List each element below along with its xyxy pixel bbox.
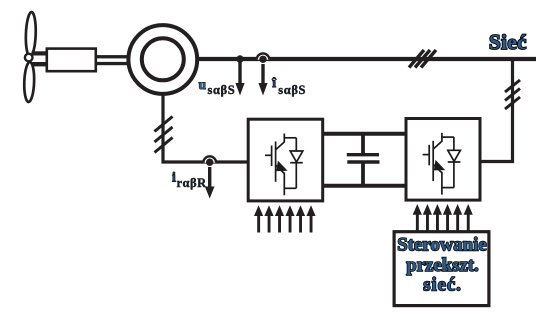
svg-text:Sieć: Sieć xyxy=(489,30,527,54)
dc bus bottom xyxy=(322,184,408,188)
rotor wire xyxy=(163,93,248,162)
turbine blade lower xyxy=(24,62,35,102)
converter box grid-side xyxy=(406,119,480,201)
svg-text:sieć.: sieć. xyxy=(423,275,461,296)
svg-text:Sterowanie: Sterowanie xyxy=(397,235,486,256)
stator wire to grid xyxy=(196,57,536,61)
turbine blade upper xyxy=(25,12,36,57)
high-speed shaft xyxy=(97,55,128,65)
control arrows grid-side converter xyxy=(413,204,473,231)
svg-text:u: u xyxy=(199,77,207,92)
node u stator xyxy=(236,55,243,62)
arrow i_s down xyxy=(258,64,267,96)
dc-link capacitor xyxy=(347,134,380,186)
low-speed shaft xyxy=(32,51,47,66)
converter box rotor-side xyxy=(248,119,323,201)
control arrows rotor-side converter xyxy=(254,205,316,232)
svg-text:i: i xyxy=(172,169,176,184)
label i_saBS xyxy=(271,75,306,97)
svg-text:przekszt.: przekszt. xyxy=(406,255,479,276)
3-phase marks rotor wire xyxy=(155,117,173,153)
IGBT module icon grid-side xyxy=(423,133,461,195)
turbine hub xyxy=(25,54,33,62)
svg-text:sαβS: sαβS xyxy=(208,83,236,97)
arrow i_r down xyxy=(205,167,215,199)
node i stator (measure ring) xyxy=(257,53,270,63)
IGBT module icon rotor-side xyxy=(265,134,303,196)
svg-text:î: î xyxy=(271,75,277,90)
3-phase marks grid drop xyxy=(505,80,520,109)
generator G xyxy=(128,25,197,94)
control box grid converter xyxy=(394,232,489,306)
dc bus top xyxy=(322,132,408,136)
svg-text:sαβS: sαβS xyxy=(278,83,306,97)
label u_saBS xyxy=(199,77,236,97)
wire grid drop xyxy=(482,59,513,162)
arrow u_s down xyxy=(235,59,244,96)
svg-text:rαβR: rαβR xyxy=(177,176,208,190)
label i_raBR xyxy=(172,169,207,190)
label Sterowanie przekszt. siec. xyxy=(397,235,486,296)
node i rotor (measure ring) xyxy=(203,156,216,166)
gearbox xyxy=(47,49,96,72)
3-phase marks stator wire xyxy=(409,50,436,68)
